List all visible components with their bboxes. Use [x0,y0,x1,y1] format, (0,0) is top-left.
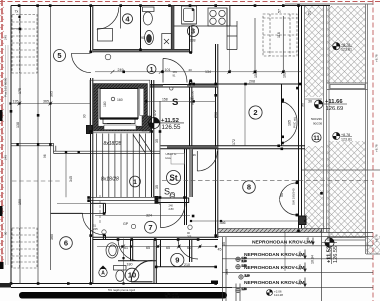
svg-text:+8.78: +8.78 [341,133,350,137]
svg-text:175: 175 [18,88,22,94]
corridor to room10 door [118,240,139,261]
room number circles [54,14,322,282]
svg-text:St: St [170,174,178,183]
svg-text:20: 20 [189,68,193,72]
room6 door [83,213,104,234]
svg-text:126.55: 126.55 [333,246,339,263]
slope arrows [304,238,314,287]
bottom wall left part [11,283,218,285]
toilet room10 [114,266,127,271]
corridor west wall and room6 north wall [51,203,106,239]
svg-text:8x18/28: 8x18/28 [101,177,119,183]
wall room2/room8 [161,145,306,147]
room9 door [178,239,198,259]
svg-text:126.69: 126.69 [326,106,344,112]
svg-text:90: 90 [4,231,8,235]
svg-text:NEPROHODAN KROV-LIM: NEPROHODAN KROV-LIM [252,239,313,245]
svg-text:360: 360 [50,234,54,240]
stair labels [101,141,122,183]
svg-text:65: 65 [146,246,150,250]
svg-text:3: 3 [191,27,195,36]
svg-text:1.50: 1.50 [242,287,248,291]
bath bottom wall double [93,49,190,51]
svg-text:GP: GP [123,222,129,226]
gray roof edge line top right [285,3,373,5]
vent shaft box [162,34,172,50]
svg-text:114.28: 114.28 [274,293,283,297]
elevator car [100,89,138,119]
svg-text:245: 245 [93,227,98,231]
svg-text:1: 1 [133,179,137,186]
stairs/landing wall x151.5 [152,80,154,197]
svg-text:35: 35 [222,242,226,246]
svg-text:9: 9 [175,256,179,265]
left exterior wall [10,6,12,284]
benchmark bottom right [322,238,339,264]
svg-text:2.10: 2.10 [242,259,248,263]
wall x90.5 room5 right [91,6,93,284]
svg-text:36: 36 [193,153,197,157]
door arcs [72,6,298,282]
svg-text:90/236: 90/236 [313,122,323,126]
room8 entry door [197,151,217,171]
svg-text:7x: 7x [15,10,19,14]
svg-text:245: 245 [4,155,8,160]
bathroom fixtures [98,6,238,282]
svg-text:+8.78: +8.78 [375,54,379,62]
right exterior wall assembly [299,6,302,233]
svg-text:51: 51 [308,11,312,15]
svg-text:BL 90x200: BL 90x200 [191,90,195,105]
facade lines left margin [6,45,9,265]
svg-text:205: 205 [187,234,192,238]
section marker A [99,266,107,277]
svg-text:123.81: 123.81 [341,137,352,141]
top exterior wall [11,5,330,7]
svg-text:123.81: 123.81 [341,48,352,52]
svg-text:8: 8 [247,183,251,192]
svg-text:2: 2 [253,108,257,117]
svg-text:101: 101 [173,70,178,74]
svg-text:2.80: 2.80 [169,207,175,211]
kitchen wall x190 [190,26,192,146]
corridor bottom wall [93,236,218,238]
svg-text:3%: 3% [306,237,310,243]
kitchen counter left edge [174,24,230,26]
svg-text:95: 95 [141,36,145,40]
svg-text:500/236: 500/236 [311,117,322,121]
svg-text:NEPROHODAN KROV-LIM: NEPROHODAN KROV-LIM [244,280,305,286]
svg-text:126.55: 126.55 [162,124,181,131]
svg-text:90: 90 [83,114,87,118]
marker at landing [149,118,185,132]
bathroom10 inner door [131,260,152,281]
red hatch ticks left border [0,1,4,262]
svg-text:172: 172 [153,110,157,116]
loggia window line x281.5 [281,84,283,146]
room2 inner verticals [255,16,283,72]
terrace double door room8 [280,183,297,215]
svg-text:61: 61 [187,246,191,250]
svg-text:245: 245 [4,35,8,40]
small circle markers on corridor wall [102,54,192,234]
svg-text:10.94: 10.94 [311,255,315,264]
svg-text:45: 45 [218,248,222,252]
small markers near bands [236,256,250,293]
marker +11.66 [314,99,347,112]
svg-text:365: 365 [43,100,49,104]
svg-text:101: 101 [165,68,171,72]
svg-text:35: 35 [155,185,159,189]
stove [208,8,227,26]
marker +8.78 top [333,43,352,52]
svg-text:208: 208 [249,80,255,84]
svg-text:S: S [172,97,178,108]
svg-text:65: 65 [166,246,170,250]
svg-text:118: 118 [277,32,281,38]
room8 left wall [185,149,193,225]
svg-text:30: 30 [308,100,312,104]
svg-text:7: 7 [148,223,152,232]
thin room lines left [20,6,51,284]
dimension lines [11,6,323,284]
svg-text:3%: 3% [298,264,302,270]
svg-text:5% nagib prema rigoli: 5% nagib prema rigoli [108,288,135,292]
kitchen cabinet [227,6,237,50]
svg-text:35: 35 [155,139,159,143]
hall right wall x216 [216,44,218,238]
svg-text:134: 134 [205,70,211,74]
svg-text:+8.78: +8.78 [341,43,350,47]
svg-text:10: 10 [128,271,136,280]
svg-text:5: 5 [57,51,61,60]
svg-text:+8.78: +8.78 [375,234,379,242]
rotated dims [16,9,315,275]
svg-text:61: 61 [124,246,128,250]
svg-text:305: 305 [50,91,54,97]
svg-text:PVC stij.: PVC stij. [293,116,297,128]
svg-text:345: 345 [69,176,73,182]
loggia double door room2 [283,102,298,144]
svg-text:150: 150 [18,199,22,205]
svg-text:160: 160 [117,98,123,102]
svg-text:57: 57 [278,9,282,13]
hatch boundary lines [302,4,380,254]
svg-text:238: 238 [190,39,196,43]
marker +8.78 mid [333,132,352,141]
svg-text:369: 369 [225,269,229,275]
landing top wall [150,84,218,86]
svg-text:1: 1 [150,67,154,74]
svg-text:NEPROHODAN KROV-LIM: NEPROHODAN KROV-LIM [244,252,305,258]
svg-text:8x18/28: 8x18/28 [104,141,122,147]
svg-text:S: S [164,187,170,197]
tiny texts [13,10,256,267]
stair bottom beam and stub [158,198,189,203]
svg-text:165: 165 [288,120,292,126]
svg-text:SW 190/240: SW 190/240 [292,188,296,205]
landing to corridor door [160,203,185,227]
svg-text:11: 11 [313,136,320,142]
small marker bottom [267,289,284,297]
hatched roof strip right of building [305,6,380,254]
svg-text:114.28: 114.28 [172,295,180,299]
dashed section line y181 [12,181,372,225]
svg-text:3%: 3% [298,279,302,285]
room5 door [72,53,91,72]
svg-text:158: 158 [162,97,168,101]
svg-text:6: 6 [64,239,68,248]
svg-text:ktov: ktov [166,156,172,160]
small benchmark below bar [165,292,180,299]
bidet room4 [145,31,154,45]
svg-text:Pos.162 80/80: Pos.162 80/80 [4,77,8,97]
svg-text:2.10: 2.10 [245,274,251,278]
svg-text:172: 172 [232,139,236,145]
left edge black wall cut marks [0,110,11,288]
svg-text:3%: 3% [298,251,302,257]
svg-text:296: 296 [214,112,218,118]
svg-text:135: 135 [13,100,19,104]
bathroom 4 door [97,6,121,29]
svg-text:180: 180 [127,262,133,266]
furniture dashed wardrobes [12,14,297,268]
stairs [11,101,161,205]
washbasin room10 [106,243,118,258]
svg-text:210: 210 [184,263,190,267]
roof bands bottom right [218,229,373,301]
toilet room4 [143,7,155,12]
svg-text:56: 56 [280,193,284,197]
svg-text:A: A [101,271,105,277]
kitchen sink unit [182,6,197,24]
svg-text:324: 324 [146,213,152,217]
left margin tiny rotated texts [4,35,379,242]
svg-text:NEPROHODAN KROV-LIM: NEPROHODAN KROV-LIM [244,265,305,271]
svg-text:138: 138 [16,122,20,128]
svg-text:96: 96 [43,154,47,158]
svg-text:356: 356 [220,221,226,225]
svg-text:180: 180 [103,101,107,107]
svg-text:+8.78: +8.78 [375,144,379,152]
bathroom walls [140,6,142,50]
black parapet bar bottom [19,292,227,299]
bottom outer line [11,287,232,289]
main walls [11,6,330,288]
bottom rooms partitions [118,240,216,284]
washing machine room4 [98,29,113,42]
elevator shaft [90,80,151,133]
svg-text:1.50: 1.50 [242,263,248,267]
hall to landing door [163,59,187,83]
line y84 kitchen/room2 [190,83,302,85]
svg-text:90: 90 [301,103,305,107]
